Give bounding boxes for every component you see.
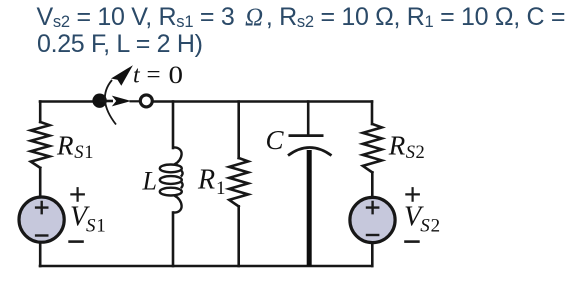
svg-text:R: R — [56, 130, 74, 160]
svg-text:S: S — [86, 216, 96, 237]
svg-text:S: S — [74, 143, 83, 163]
svg-text:1: 1 — [216, 178, 226, 199]
svg-text:L: L — [142, 167, 157, 196]
svg-text:=: = — [147, 62, 161, 89]
svg-text:2: 2 — [416, 143, 425, 163]
svg-text:C: C — [266, 125, 285, 155]
svg-text:1: 1 — [84, 143, 93, 163]
svg-text:S: S — [420, 216, 430, 237]
svg-text:S: S — [406, 143, 415, 163]
svg-text:0: 0 — [169, 62, 184, 89]
svg-text:t: t — [133, 63, 141, 89]
svg-text:R: R — [388, 131, 406, 161]
svg-text:1: 1 — [96, 216, 106, 237]
svg-text:R: R — [197, 164, 215, 195]
svg-text:2: 2 — [431, 216, 441, 237]
